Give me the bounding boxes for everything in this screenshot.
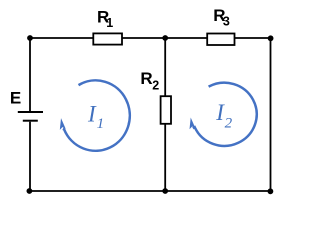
svg-text:2: 2 [152,78,159,92]
svg-text:1: 1 [97,116,105,132]
svg-text:E: E [10,88,21,107]
svg-text:R: R [140,69,152,88]
svg-text:1: 1 [106,16,113,30]
svg-text:3: 3 [223,15,230,29]
svg-text:2: 2 [225,115,233,131]
svg-text:I: I [87,101,97,126]
